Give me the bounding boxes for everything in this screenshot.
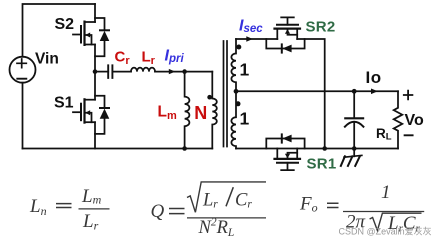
Io arrow bbox=[371, 89, 378, 95]
svg-text:SR2: SR2 bbox=[306, 19, 336, 36]
node half-bridge midpoint bbox=[93, 69, 98, 74]
svg-text:1: 1 bbox=[381, 182, 391, 203]
wire Lr to node A with Ipri arrow bbox=[155, 69, 185, 74]
resistor RL bbox=[394, 91, 403, 148]
inductor Lm bbox=[185, 72, 190, 149]
wire node A to primary winding bbox=[185, 71, 213, 73]
transistor SR1 bbox=[275, 149, 301, 171]
wire left rail + top rail bbox=[23, 4, 96, 57]
transformer primary winding N bbox=[212, 72, 217, 149]
equation Ln = Lm / Lr bbox=[29, 186, 110, 233]
wire center tap output Vout+ bbox=[236, 90, 398, 92]
svg-text:Vo: Vo bbox=[405, 112, 424, 129]
wire SR2 to ground rail bbox=[297, 39, 325, 149]
node filter cap ground bbox=[352, 146, 357, 151]
svg-text:CSDN @Zevalin爱灰灰: CSDN @Zevalin爱灰灰 bbox=[339, 226, 432, 237]
polarity dot primary bbox=[207, 95, 212, 100]
node A primary top bbox=[182, 69, 187, 74]
wire secondary ground rail bbox=[236, 148, 398, 150]
wire primary bottom rail bbox=[23, 148, 213, 150]
body diode of S1 bbox=[95, 96, 109, 134]
inductor Lr bbox=[131, 68, 155, 72]
svg-text:Q: Q bbox=[151, 201, 165, 222]
node SR2 leg on ground rail bbox=[322, 146, 327, 151]
transformer core bbox=[224, 41, 228, 147]
svg-text:S1: S1 bbox=[54, 95, 74, 112]
equation Q = sqrt(Lr/Cr) / (N^2 RL) bbox=[151, 182, 267, 239]
svg-text:S2: S2 bbox=[55, 16, 75, 33]
capacitor Co output filter bbox=[345, 91, 364, 148]
minus terminal bbox=[405, 134, 413, 136]
body diode of S2 bbox=[95, 18, 109, 56]
body diode of SR2 bbox=[266, 39, 304, 53]
transformer secondary winding top (1) bbox=[231, 39, 236, 91]
svg-text:Vin: Vin bbox=[35, 51, 59, 68]
body diode of SR1 bbox=[266, 134, 304, 148]
transformer secondary winding bottom (1) bbox=[231, 91, 236, 148]
svg-text:Io: Io bbox=[366, 68, 382, 87]
svg-text:1: 1 bbox=[240, 108, 250, 128]
polarity dot secondary bottom bbox=[236, 101, 241, 106]
voltage source Vin bbox=[10, 57, 36, 83]
node center tap bbox=[234, 89, 239, 94]
wire Isec top secondary to SR2 bbox=[236, 36, 277, 41]
equation Fo = 1 / (2 pi sqrt(Lr Cr)) bbox=[299, 182, 424, 235]
transistor S1 bbox=[73, 72, 95, 149]
node cap top bbox=[352, 89, 357, 94]
node Lm bottom junction bbox=[182, 146, 187, 151]
transistor S2 bbox=[73, 4, 95, 72]
transistor SR2 bbox=[275, 17, 301, 39]
svg-text:N: N bbox=[194, 103, 207, 123]
svg-text:SR1: SR1 bbox=[307, 156, 337, 173]
wire left rail bottom bbox=[22, 83, 24, 149]
ground bbox=[341, 149, 362, 166]
svg-text:1: 1 bbox=[240, 60, 250, 80]
capacitor Cr bbox=[95, 65, 131, 78]
plus terminal bbox=[404, 91, 413, 100]
polarity dot secondary top bbox=[236, 45, 241, 50]
